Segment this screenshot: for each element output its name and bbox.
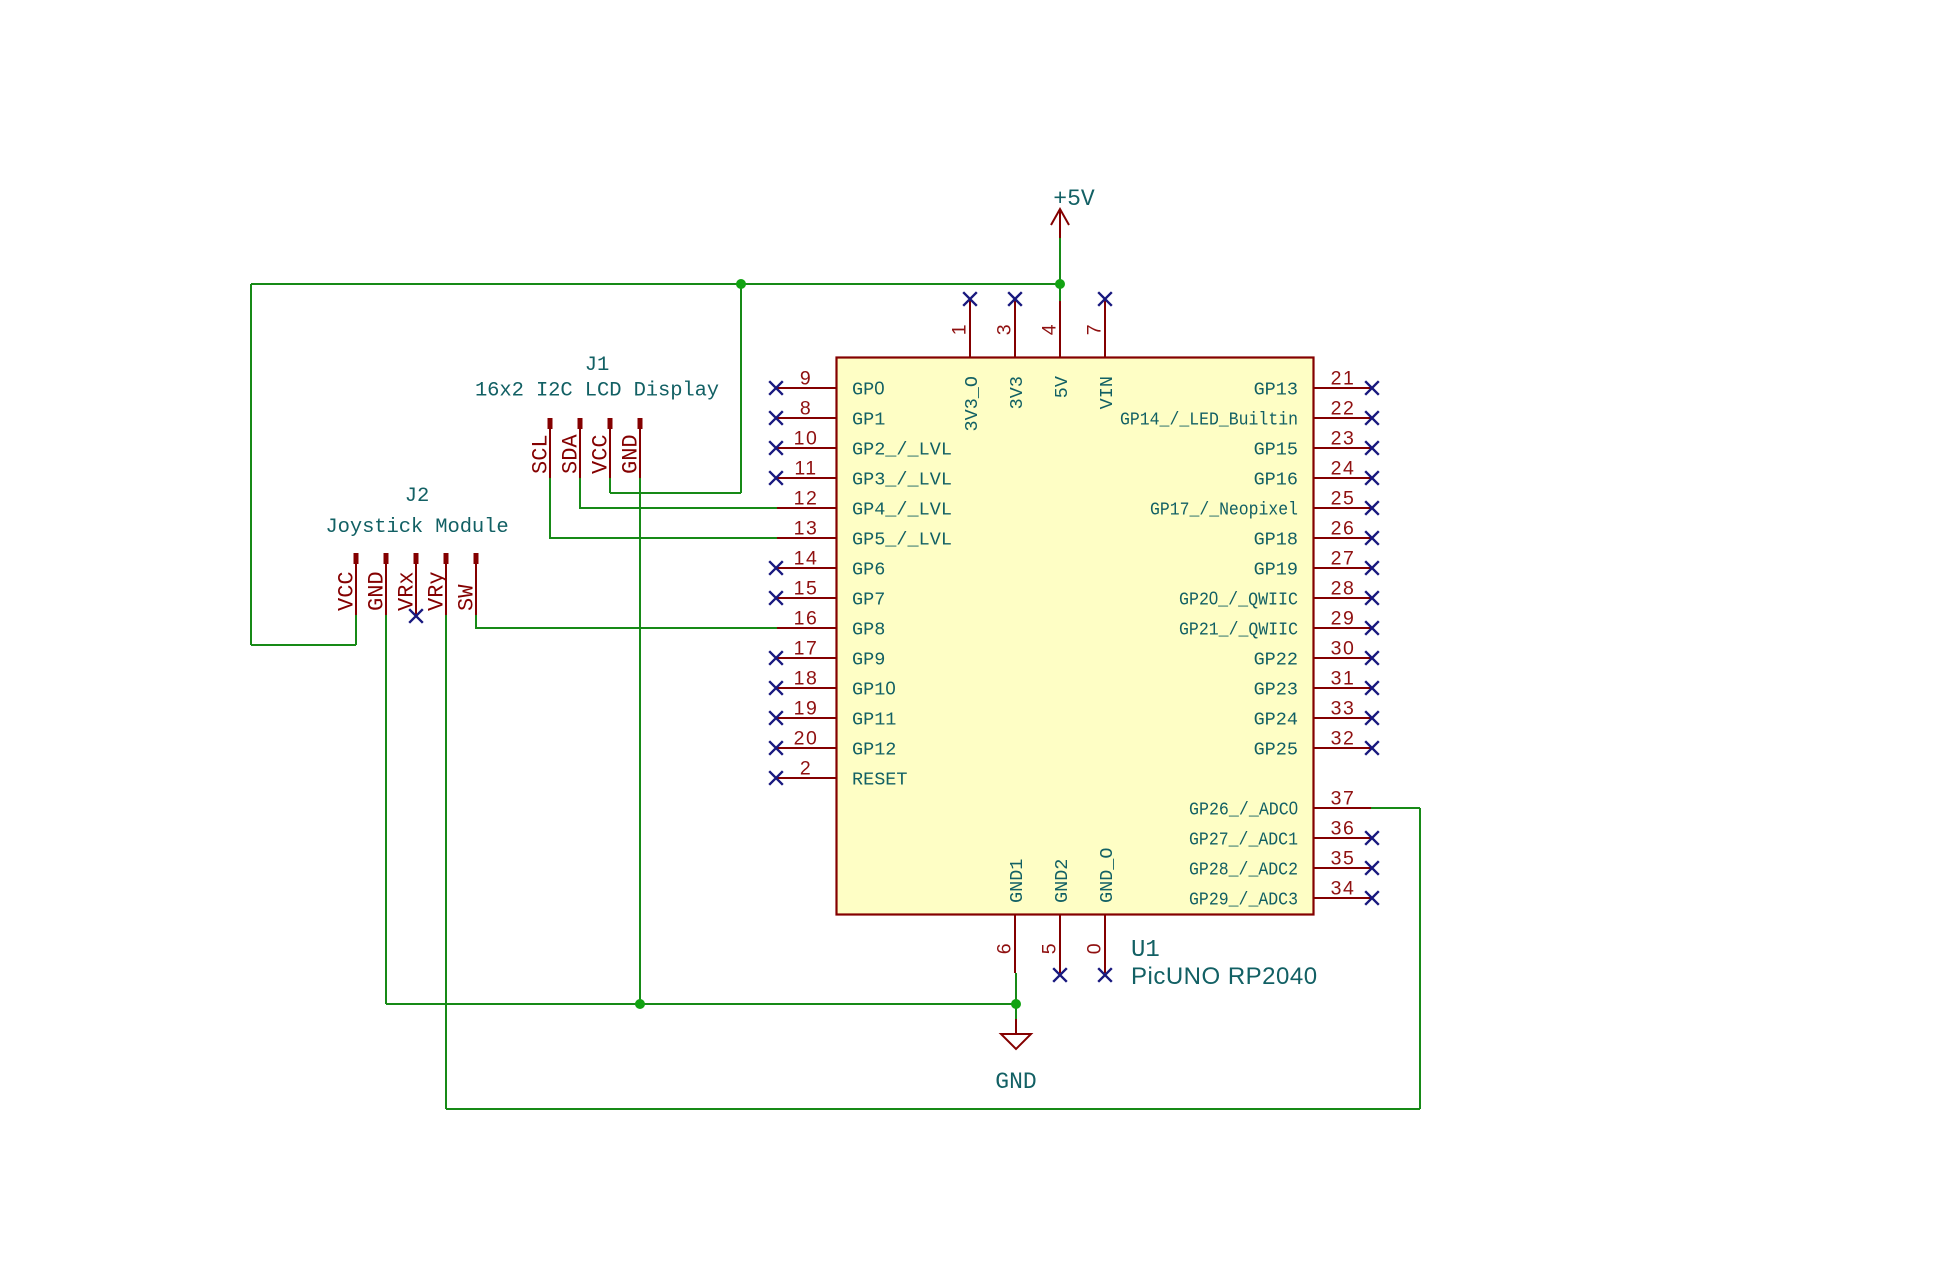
- connector J1 pin SDA: [559, 418, 584, 478]
- svg-text:GP3_/_LVL: GP3_/_LVL: [852, 470, 952, 491]
- svg-text:GP11: GP11: [852, 710, 896, 731]
- connector J1 pin GND: [619, 418, 644, 478]
- wire J1 VCC horizontal: [610, 492, 741, 494]
- svg-text:10: 10: [794, 428, 819, 450]
- svg-text:5: 5: [1039, 942, 1061, 954]
- svg-text:GP16: GP16: [1254, 470, 1298, 491]
- U1 pin 3 3V3 (top): [994, 292, 1029, 409]
- svg-text:SDA: SDA: [559, 434, 584, 474]
- svg-text:VRy: VRy: [425, 571, 450, 611]
- svg-text:36: 36: [1331, 818, 1356, 840]
- U1 pin 10 GP2_/_LVL (left): [769, 428, 952, 461]
- svg-text:3V3_O: 3V3_O: [962, 376, 983, 432]
- svg-text:VIN: VIN: [1097, 376, 1118, 409]
- svg-text:33: 33: [1331, 698, 1356, 720]
- svg-text:27: 27: [1331, 548, 1356, 570]
- svg-text:20: 20: [794, 728, 819, 750]
- svg-text:GND_O: GND_O: [1097, 847, 1118, 903]
- svg-text:GND1: GND1: [1007, 859, 1028, 903]
- U1 pin 12 GP4_/_LVL (left): [777, 488, 952, 521]
- wire +5V drop to J1 VCC vertical: [740, 284, 742, 493]
- svg-text:GP2_/_LVL: GP2_/_LVL: [852, 440, 952, 461]
- wire J2 VCC pin drop: [355, 615, 357, 645]
- U1 pin 25 GP17_/_Neopixel (right): [1150, 488, 1379, 521]
- U1 pin 24 GP16 (right): [1254, 458, 1379, 491]
- U1 pin 1 3V3_O (top): [949, 292, 984, 431]
- svg-text:GND2: GND2: [1052, 859, 1073, 903]
- U1 pin 31 GP23 (right): [1254, 668, 1379, 701]
- svg-text:26: 26: [1331, 518, 1356, 540]
- wire VRy net down: [445, 615, 447, 1109]
- wire +5V to J2 VCC horizontal: [251, 644, 356, 646]
- U1 pin 8 GP1 (left): [769, 398, 885, 431]
- svg-text:30: 30: [1331, 638, 1356, 660]
- U1 pin 13 GP5_/_LVL (left): [777, 518, 952, 551]
- svg-text:GP9: GP9: [852, 650, 885, 671]
- svg-text:GP26_/_ADC0: GP26_/_ADC0: [1189, 798, 1298, 821]
- svg-text:11: 11: [794, 458, 817, 480]
- svg-text:5V: 5V: [1052, 376, 1073, 398]
- wire GND symbol link: [1015, 1004, 1017, 1019]
- wire J1 VCC pin drop: [609, 478, 611, 493]
- svg-text:35: 35: [1331, 848, 1356, 870]
- svg-text:GP7: GP7: [852, 590, 885, 611]
- svg-text:+5V: +5V: [1053, 186, 1095, 212]
- wire J1 GND vertical: [639, 478, 641, 1004]
- no-connect on J2 pin VRx: [409, 609, 423, 623]
- svg-text:GP1: GP1: [852, 410, 885, 431]
- U1 pin 27 GP19 (right): [1254, 548, 1379, 581]
- U1 pin 22 GP14_/_LED_Builtin (right): [1120, 398, 1379, 431]
- U1 pin 15 GP7 (left): [769, 578, 885, 611]
- svg-text:25: 25: [1331, 488, 1356, 510]
- U1 pin 0 GND_O (bottom): [1084, 847, 1119, 981]
- svg-text:GP17_/_Neopixel: GP17_/_Neopixel: [1150, 500, 1298, 521]
- U1 pin 26 GP18 (right): [1254, 518, 1379, 551]
- svg-text:GP18: GP18: [1254, 530, 1298, 551]
- svg-text:GP5_/_LVL: GP5_/_LVL: [852, 530, 952, 551]
- U1 pin 11 GP3_/_LVL (left): [769, 458, 952, 491]
- svg-text:8: 8: [800, 398, 812, 420]
- U1 pin 18 GP10 (left): [769, 668, 895, 701]
- connector J1 pin SCL: [529, 418, 554, 478]
- svg-text:GP6: GP6: [852, 560, 885, 581]
- svg-text:GP28_/_ADC2: GP28_/_ADC2: [1189, 860, 1298, 881]
- svg-text:3V3: 3V3: [1007, 376, 1028, 409]
- U1 pin 34 GP29_/_ADC3 (right): [1189, 878, 1379, 911]
- U1 pin 2 RESET (left): [769, 758, 907, 791]
- connector J1 pin VCC: [589, 418, 614, 478]
- svg-text:0: 0: [1084, 942, 1106, 954]
- IC U1 body: PicUNO RP2040 rectangle: [837, 358, 1314, 915]
- svg-text:7: 7: [1084, 323, 1106, 335]
- svg-text:12: 12: [794, 488, 819, 510]
- svg-text:GND: GND: [365, 571, 390, 611]
- svg-text:GP10: GP10: [852, 678, 896, 701]
- svg-text:15: 15: [794, 578, 819, 600]
- svg-text:SW: SW: [455, 584, 480, 611]
- U1 pin 37 GP26_/_ADC0 (right): [1189, 788, 1371, 821]
- wire +5V rail left vertical: [250, 284, 252, 645]
- U1 pin 21 GP13 (right): [1254, 368, 1379, 401]
- connector J2 pin VRx: [395, 553, 420, 615]
- U1 pin 30 GP22 (right): [1254, 638, 1379, 671]
- svg-text:32: 32: [1331, 728, 1356, 750]
- svg-text:GP19: GP19: [1254, 560, 1298, 581]
- junction GND / U1 GND1: [1011, 999, 1021, 1009]
- junction +5V stem: [1055, 279, 1065, 289]
- svg-text:GP4_/_LVL: GP4_/_LVL: [852, 500, 952, 521]
- U1 pin 16 GP8 (left): [777, 608, 885, 641]
- svg-text:16x2 I2C LCD Display: 16x2 I2C LCD Display: [475, 380, 719, 403]
- svg-text:J1: J1: [585, 354, 609, 377]
- svg-text:GP21_/_QWIIC: GP21_/_QWIIC: [1179, 620, 1298, 641]
- wire SCL net J1 to U1 GP5: [550, 478, 777, 538]
- svg-text:17: 17: [794, 638, 819, 660]
- U1 pin 9 GP0 (left): [769, 368, 884, 401]
- U1 pin 32 GP25 (right): [1254, 728, 1379, 761]
- svg-text:28: 28: [1331, 578, 1356, 600]
- svg-text:GP24: GP24: [1254, 710, 1298, 731]
- svg-text:16: 16: [794, 608, 819, 630]
- svg-text:GND: GND: [995, 1069, 1036, 1095]
- connector J2 pin VRy: [425, 553, 450, 615]
- svg-text:37: 37: [1331, 788, 1356, 810]
- U1 pin 19 GP11 (left): [769, 698, 896, 731]
- wire U1 5V pin link: [1059, 284, 1061, 301]
- svg-text:GP13: GP13: [1254, 380, 1298, 401]
- connector J2 pin VCC: [335, 553, 360, 615]
- wire VRy net right vertical: [1419, 808, 1421, 1109]
- connector J2 pin GND: [365, 553, 390, 615]
- svg-text:GP12: GP12: [852, 740, 896, 761]
- svg-text:GP20_/_QWIIC: GP20_/_QWIIC: [1179, 588, 1298, 611]
- U1 pin 4 5V (top): [1039, 301, 1074, 399]
- ground symbol GND: [995, 1019, 1036, 1095]
- svg-text:13: 13: [794, 518, 819, 540]
- svg-text:23: 23: [1331, 428, 1356, 450]
- svg-text:GP22: GP22: [1254, 650, 1298, 671]
- U1 pin 29 GP21_/_QWIIC (right): [1179, 608, 1379, 641]
- svg-text:3: 3: [994, 323, 1016, 335]
- svg-text:2: 2: [800, 758, 812, 780]
- U1 pin 35 GP28_/_ADC2 (right): [1189, 848, 1379, 881]
- wire GND horizontal to U1 GND1: [386, 1003, 1016, 1005]
- junction +5V / J1 VCC: [736, 279, 746, 289]
- U1 pin 36 GP27_/_ADC1 (right): [1189, 818, 1379, 851]
- svg-text:18: 18: [794, 668, 819, 690]
- power symbol +5V: [1051, 186, 1095, 238]
- U1 pin 14 GP6 (left): [769, 548, 885, 581]
- svg-text:VCC: VCC: [589, 434, 614, 474]
- svg-text:GP29_/_ADC3: GP29_/_ADC3: [1189, 890, 1298, 911]
- wire SDA net J1 to U1 GP4: [580, 478, 777, 508]
- svg-text:19: 19: [794, 698, 819, 720]
- U1 pin 6 GND1 (bottom): [994, 859, 1029, 973]
- svg-text:Joystick Module: Joystick Module: [325, 516, 508, 539]
- svg-text:21: 21: [1331, 368, 1356, 390]
- U1 pin 28 GP20_/_QWIIC (right): [1179, 578, 1379, 611]
- svg-text:VRx: VRx: [395, 571, 420, 611]
- junction GND / J1 GND: [635, 999, 645, 1009]
- svg-text:31: 31: [1331, 668, 1356, 690]
- connector J2 pin SW: [455, 553, 480, 615]
- svg-text:34: 34: [1331, 878, 1356, 900]
- svg-text:VCC: VCC: [335, 571, 360, 611]
- wire SW net J2 to U1 GP8: [476, 615, 777, 628]
- svg-text:GP15: GP15: [1254, 440, 1298, 461]
- svg-text:GP8: GP8: [852, 620, 885, 641]
- U1 pin 5 GND2 (bottom): [1039, 859, 1074, 982]
- wire J2 GND vertical: [385, 615, 387, 1004]
- svg-text:9: 9: [800, 368, 812, 390]
- svg-text:GP25: GP25: [1254, 740, 1298, 761]
- U1 pin 23 GP15 (right): [1254, 428, 1379, 461]
- U1 pin 33 GP24 (right): [1254, 698, 1379, 731]
- U1 pin 17 GP9 (left): [769, 638, 885, 671]
- svg-text:22: 22: [1331, 398, 1356, 420]
- svg-text:PicUNO RP2040: PicUNO RP2040: [1131, 963, 1318, 990]
- svg-text:GP23: GP23: [1254, 680, 1298, 701]
- svg-text:14: 14: [794, 548, 819, 570]
- svg-text:4: 4: [1039, 323, 1061, 335]
- svg-text:GP27_/_ADC1: GP27_/_ADC1: [1189, 830, 1298, 851]
- U1 pin 7 VIN (top): [1084, 292, 1119, 409]
- wire +5V rail top horizontal: [251, 283, 1060, 285]
- svg-text:6: 6: [994, 942, 1016, 954]
- svg-text:GP0: GP0: [852, 378, 885, 401]
- wire U1 GND1 pin link: [1015, 973, 1017, 1004]
- svg-text:SCL: SCL: [529, 434, 554, 474]
- svg-text:29: 29: [1331, 608, 1356, 630]
- wire VRy net to U1 GP26: [1371, 807, 1420, 809]
- svg-text:J2: J2: [405, 485, 429, 508]
- wire +5V stem above junction: [1059, 238, 1061, 284]
- svg-text:24: 24: [1331, 458, 1356, 480]
- svg-text:1: 1: [949, 323, 971, 335]
- svg-text:U1: U1: [1131, 937, 1160, 964]
- wire VRy net bottom horizontal: [446, 1108, 1420, 1110]
- svg-text:GND: GND: [619, 434, 644, 474]
- U1 pin 20 GP12 (left): [769, 728, 896, 761]
- svg-text:GP14_/_LED_Builtin: GP14_/_LED_Builtin: [1120, 410, 1298, 431]
- svg-text:RESET: RESET: [852, 770, 908, 791]
